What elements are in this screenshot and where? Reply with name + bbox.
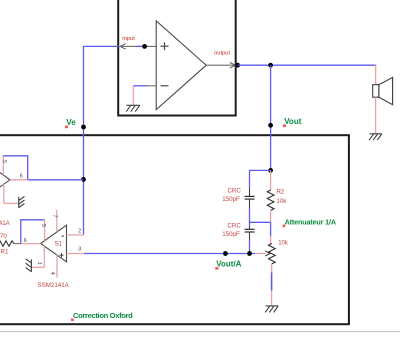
wire R2 bottom to potentiometer bbox=[270, 222, 272, 243]
pin 1 S1 to ground bbox=[32, 246, 45, 267]
port output (top box) bbox=[230, 63, 236, 68]
wire cap chain middle bbox=[249, 208, 251, 226]
wire Ve: input port to Ve net vertical bbox=[84, 46, 120, 127]
svg-text:R2: R2 bbox=[277, 189, 285, 195]
wire top branch to capacitor chain bbox=[250, 170, 271, 188]
svg-text:output: output bbox=[214, 51, 231, 57]
svg-text:Correction Oxford: Correction Oxford bbox=[73, 311, 133, 320]
svg-text:6: 6 bbox=[24, 238, 27, 244]
node Vout dot bbox=[268, 123, 273, 128]
node dot cap chain bottom bbox=[247, 251, 252, 256]
wire mid connection caps to R2 bottom bbox=[250, 221, 271, 223]
pin 6 S1 output bbox=[21, 238, 41, 244]
node dot Vout/A left bbox=[223, 251, 228, 256]
svg-text:10k: 10k bbox=[278, 240, 289, 246]
svg-text:Vout: Vout bbox=[284, 117, 302, 126]
node Vout top junction bbox=[268, 63, 273, 68]
svg-text:Vout/A: Vout/A bbox=[216, 260, 241, 269]
hierarchical block (top box, amplifier) bbox=[118, 0, 236, 116]
svg-text:5: 5 bbox=[1, 160, 7, 163]
op-amp U1 (top box) bbox=[156, 21, 206, 110]
wire output net to speaker bbox=[238, 64, 376, 67]
wire op-amp minus input to ground bbox=[133, 86, 156, 105]
label output bbox=[214, 51, 231, 57]
node dot output at box edge bbox=[235, 63, 240, 68]
svg-text:6: 6 bbox=[20, 173, 23, 179]
label S1 SSM2141A bbox=[38, 282, 70, 289]
potentiometer P1 10k bbox=[255, 240, 289, 264]
op-amp S1 bbox=[41, 225, 67, 262]
svg-text:Attenuateur 1/A: Attenuateur 1/A bbox=[285, 218, 336, 227]
capacitor C2 (CRC 150pF lower) bbox=[222, 222, 254, 240]
svg-text:7: 7 bbox=[51, 215, 57, 218]
svg-text:5: 5 bbox=[40, 224, 46, 227]
wire Ve vertical down to S1 pin 2 bbox=[83, 127, 85, 235]
label Vout bbox=[283, 117, 302, 127]
wire S1 feedback loop bbox=[21, 220, 45, 244]
ground (potentiometer) bbox=[265, 306, 278, 313]
pin 6 U2 output bbox=[10, 173, 28, 179]
svg-text:150pF: 150pF bbox=[222, 196, 240, 203]
wire U2 output to Ve bbox=[28, 179, 84, 181]
node dot on input wire bbox=[142, 44, 147, 49]
node attenuator top junction bbox=[268, 168, 273, 173]
wire cap chain bottom bbox=[249, 240, 251, 254]
label Vout/A bbox=[215, 260, 241, 270]
label Attenuateur 1/A bbox=[283, 218, 336, 228]
svg-text:10k: 10k bbox=[276, 198, 287, 205]
speaker LS1 bbox=[373, 65, 393, 134]
ground (top box) bbox=[126, 105, 140, 111]
svg-text:470: 470 bbox=[0, 233, 7, 240]
svg-text:input: input bbox=[122, 36, 135, 42]
svg-text:150pF: 150pF bbox=[222, 231, 240, 238]
wire pot bottom to ground bbox=[271, 264, 273, 306]
svg-text:R1: R1 bbox=[1, 249, 9, 256]
node Ve junction dot upper bbox=[81, 125, 86, 130]
label input bbox=[122, 36, 135, 42]
ground (speaker) bbox=[369, 134, 382, 140]
pin 3 S1 bbox=[67, 247, 85, 254]
separator grey line bottom bbox=[0, 331, 400, 333]
svg-text:SSM2141A: SSM2141A bbox=[0, 220, 11, 227]
op-amp U2 (upper left, partially visible) bbox=[0, 161, 10, 198]
svg-text:CRC: CRC bbox=[227, 187, 241, 194]
pin 1 U2 to ground bbox=[4, 184, 18, 203]
svg-text:4: 4 bbox=[49, 272, 55, 275]
wire Vout/A horizontal (S1 pin3 to pot wiper) bbox=[84, 253, 255, 255]
wire input port to op-amp + bbox=[120, 45, 156, 47]
ground (U2, rotated right) bbox=[19, 196, 25, 207]
label U2 SSM2141A (cut) bbox=[0, 220, 11, 227]
wire op-amp output to output port bbox=[206, 64, 235, 66]
svg-text:SSM2141A: SSM2141A bbox=[38, 282, 70, 289]
pin 5 U2 bbox=[1, 156, 7, 175]
pin 5 S1 bbox=[40, 220, 46, 241]
wire Vout vertical bbox=[270, 65, 272, 170]
resistor R2 bbox=[267, 170, 287, 222]
pin 7 S1 bbox=[51, 210, 57, 232]
resistor R1 470 bbox=[0, 233, 21, 255]
svg-text:CRC: CRC bbox=[227, 222, 241, 229]
hierarchical block (lower box, correction) bbox=[0, 135, 349, 324]
label Ve bbox=[65, 118, 76, 128]
pin 4 S1 bbox=[49, 255, 57, 278]
pin 2 S1 bbox=[67, 228, 85, 235]
port input (top box) bbox=[120, 44, 126, 49]
label Correction Oxford bbox=[71, 311, 133, 321]
wire U2 feedback loop bbox=[3, 156, 27, 180]
node junction opamp1 output / Ve bbox=[81, 177, 86, 182]
svg-text:1: 1 bbox=[36, 262, 42, 265]
svg-text:2: 2 bbox=[78, 228, 81, 234]
ground (S1, rotated left) bbox=[26, 259, 32, 272]
capacitor C1 (CRC 150pF upper) bbox=[222, 187, 254, 208]
svg-text:3: 3 bbox=[78, 247, 81, 253]
svg-text:S1: S1 bbox=[55, 241, 63, 248]
